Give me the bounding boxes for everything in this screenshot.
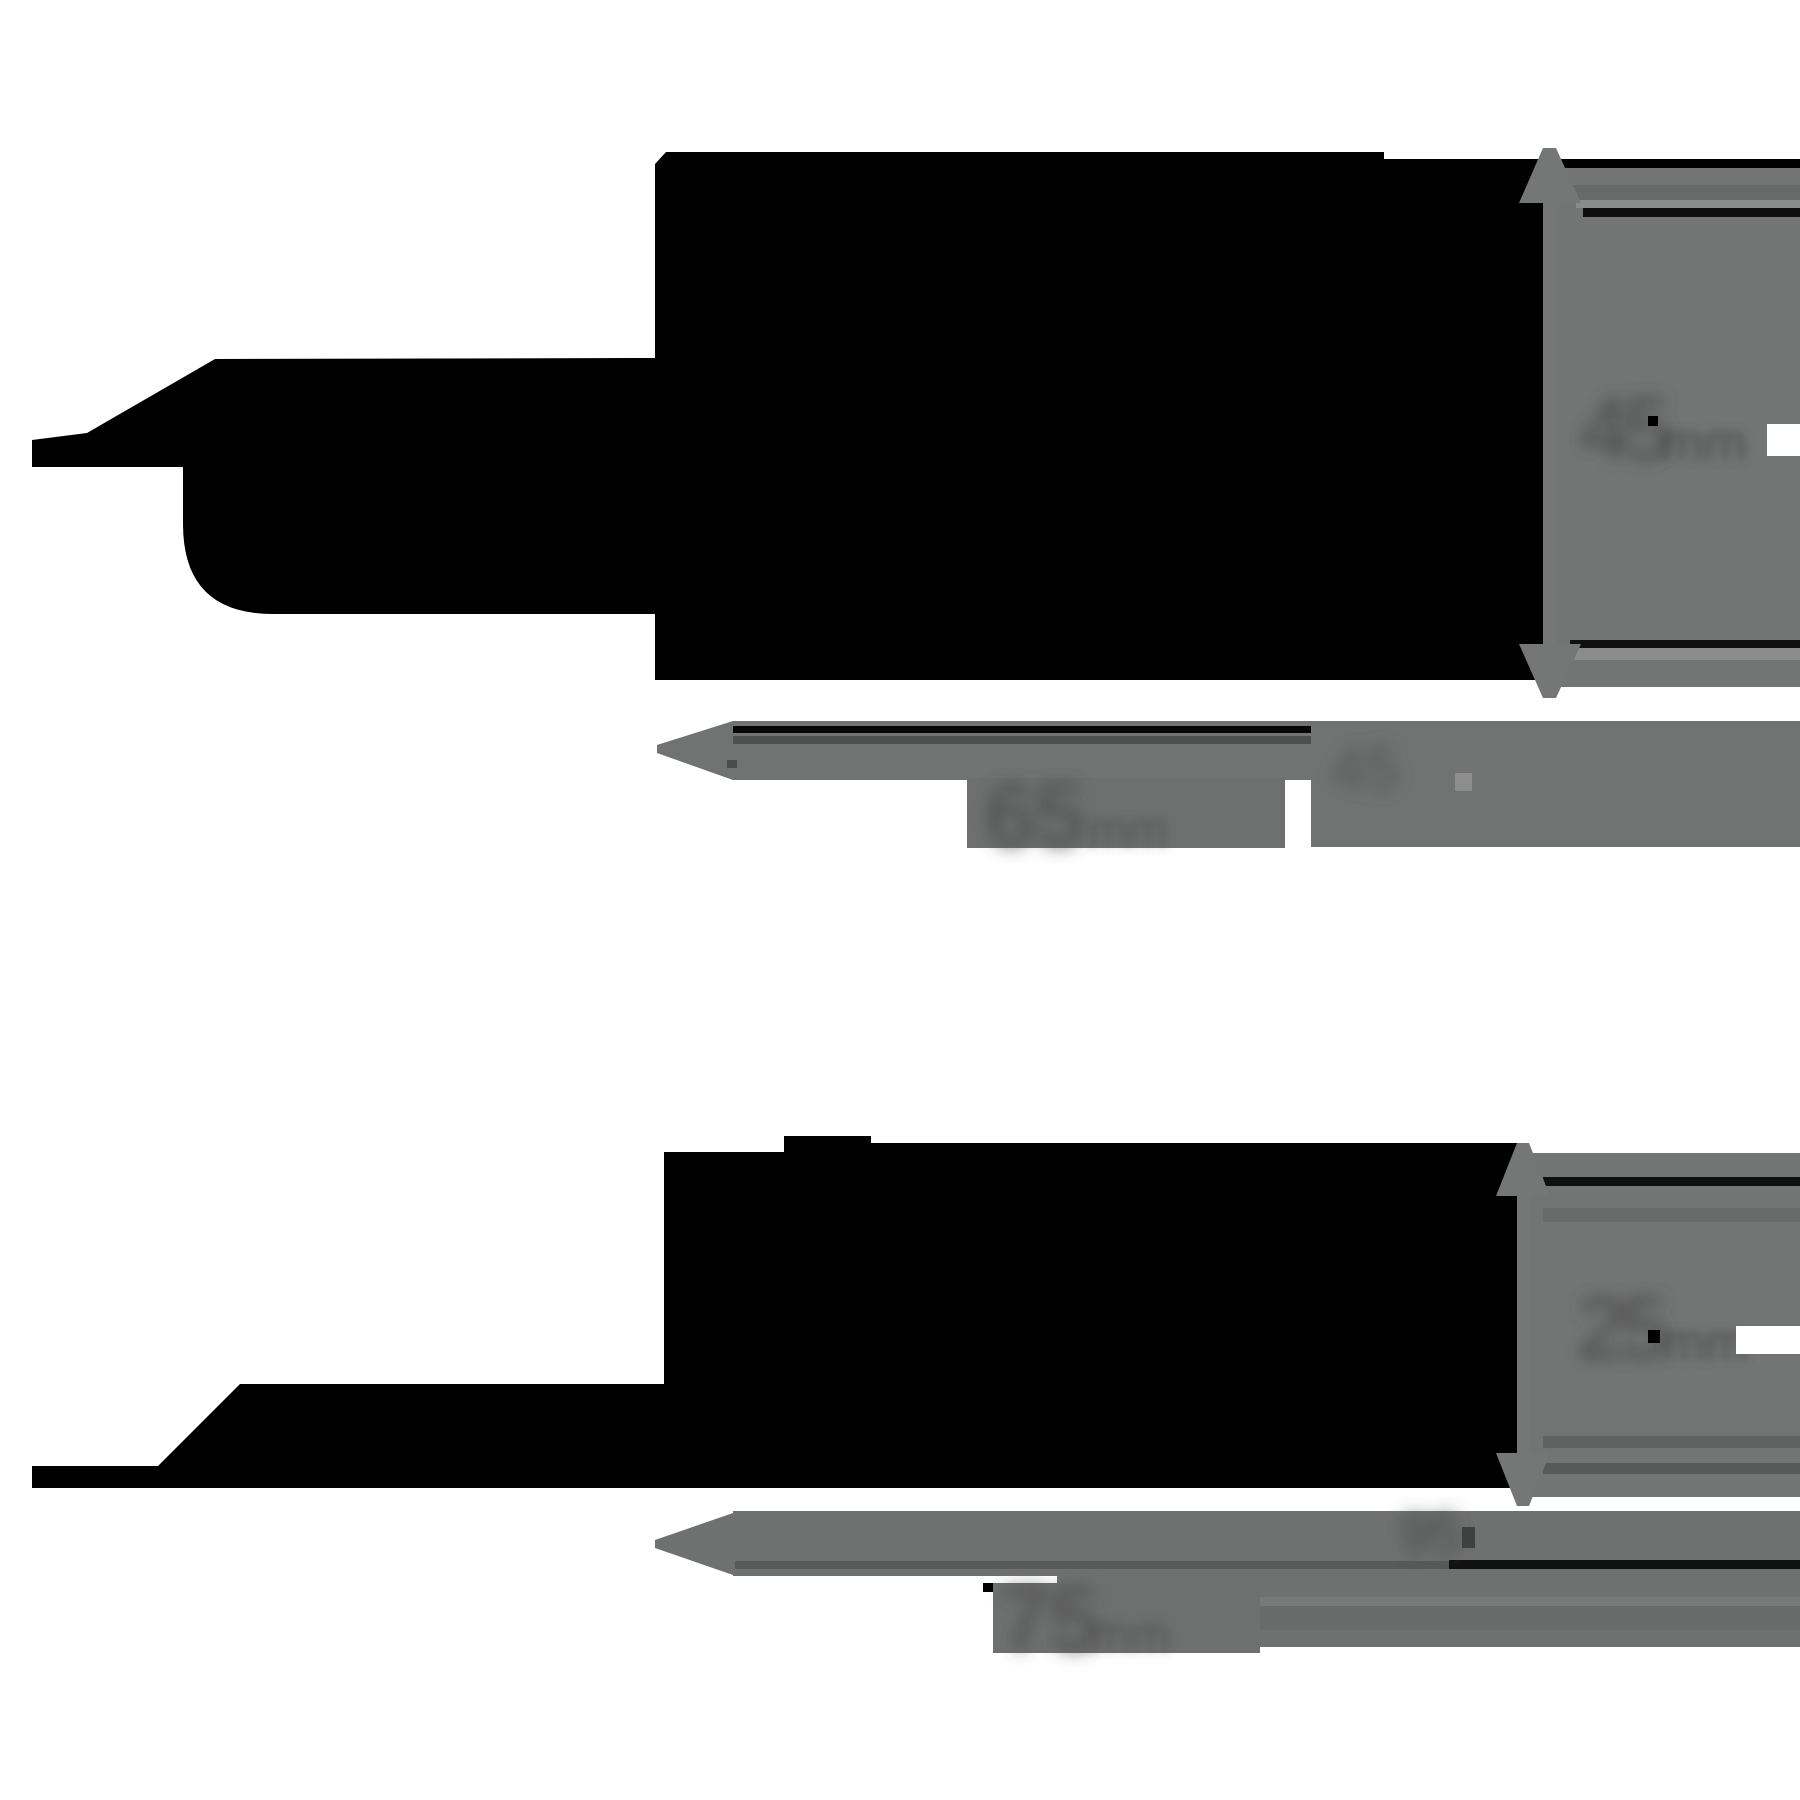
- panel light row 2: [1574, 648, 1800, 660]
- bottom panel bottom sliver: [1520, 1488, 1800, 1497]
- width arrow band (top object): [733, 721, 1311, 780]
- width arrow band (bottom object): [733, 1511, 1800, 1576]
- height label black square (bottom): [1648, 1330, 1660, 1343]
- panel black row: [1583, 208, 1800, 217]
- panel dark band: [1543, 185, 1800, 200]
- top object: pan body (black rectangle): [655, 152, 1543, 680]
- bottom-right gray panel: [1528, 1153, 1800, 1497]
- svg-text:75: 75: [1000, 1570, 1100, 1670]
- svg-text:65: 65: [985, 766, 1085, 866]
- width arrow black line (bottom): [1449, 1560, 1800, 1569]
- width arrowhead base dark square: [727, 760, 737, 768]
- bottom width label black square: [983, 1583, 993, 1592]
- svg-text:45: 45: [1330, 735, 1399, 804]
- bottom object: griddle body with handle: [32, 1136, 1520, 1488]
- top-right gray panel: [1543, 168, 1800, 687]
- bottom panel white notch: [1736, 1326, 1800, 1354]
- svg-text:mm: mm: [1088, 804, 1168, 857]
- width arrowhead left (bottom): [655, 1513, 733, 1575]
- width band light dot: [1455, 773, 1472, 791]
- top object: top-right edge sliver: [1384, 159, 1800, 168]
- width arrow dark line: [733, 736, 1311, 744]
- bottom panel dark band: [1543, 1208, 1800, 1222]
- bottom band light inner band: [1057, 1597, 1800, 1606]
- svg-text:45: 45: [1580, 379, 1669, 478]
- panel light band: [1576, 200, 1800, 208]
- width arrow black core line: [733, 726, 1311, 733]
- panel black row 2: [1570, 640, 1800, 648]
- svg-text:mm: mm: [1090, 1608, 1170, 1661]
- width label blob: [967, 778, 1285, 848]
- width arrowhead (left): [657, 721, 733, 780]
- bottom panel dark line: [1543, 1463, 1800, 1474]
- height label black square: [1648, 416, 1658, 426]
- width arrow tall right part (bottom): [1057, 1511, 1800, 1647]
- bottom width label blob: [993, 1583, 1260, 1653]
- width arrow tall right part: [1311, 721, 1800, 847]
- bottom object: bottom edge sliver: [1520, 1480, 1800, 1488]
- svg-text:mm: mm: [1662, 1314, 1749, 1372]
- bottom panel dark band 2: [1543, 1436, 1800, 1448]
- bottom band dark square: [1462, 1527, 1475, 1548]
- width arrow dark line (bottom): [735, 1561, 1449, 1569]
- height arrow (bottom object): [1496, 1143, 1550, 1506]
- svg-text:25: 25: [1577, 1278, 1666, 1377]
- panel white notch: [1767, 424, 1800, 456]
- top object: handle and rounded blob: [32, 358, 655, 614]
- bottom band dark inner band: [1057, 1606, 1800, 1630]
- height arrow (top object): [1519, 148, 1581, 698]
- svg-text:mm: mm: [1660, 414, 1747, 472]
- bottom panel black row: [1543, 1177, 1800, 1186]
- svg-text:95: 95: [1400, 1501, 1462, 1564]
